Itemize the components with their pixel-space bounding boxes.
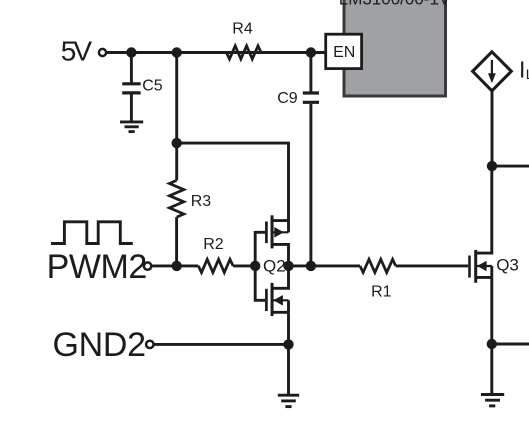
wire: PWM2 to R2 (152, 264, 198, 267)
svg-text:R3: R3 (191, 193, 212, 210)
wire: 5V rail down to R3 (175, 53, 178, 181)
gate lead (255, 232, 265, 266)
terminal PWM2 (144, 262, 151, 269)
svg-text:PWM2: PWM2 (47, 248, 147, 286)
transistor Q3 (NMOS) (470, 166, 492, 283)
svg-text:LM3100/00-1V: LM3100/00-1V (339, 0, 451, 8)
ground (below C5) (120, 122, 143, 132)
source stub (476, 276, 492, 279)
body stub with NMOS arrow (272, 299, 288, 301)
svg-text:R2: R2 (203, 236, 224, 253)
drain stub (476, 166, 492, 253)
resistor R4 (226, 46, 261, 59)
channel bar (271, 283, 274, 316)
IC U1 (gray body, partially shown at top) (344, 0, 446, 96)
node: R3 top / PMOS source branch (172, 138, 182, 148)
svg-text:Q2: Q2 (263, 256, 286, 275)
svg-text:Q3: Q3 (496, 256, 519, 275)
wire: Q2 output to R1 (289, 264, 361, 267)
ground (below Q3) (481, 395, 504, 406)
wire: Q2 source down to ground (287, 312, 290, 394)
gate lead (255, 266, 265, 300)
wire: C9 top lead (309, 53, 312, 92)
svg-text:GND2: GND2 (53, 326, 146, 364)
node: Q2 output (283, 261, 293, 271)
svg-text:5V: 5V (61, 36, 93, 67)
svg-text:R1: R1 (371, 283, 392, 300)
wire: R1 to Q3 gate (396, 264, 469, 267)
channel bar (271, 215, 274, 248)
wire: 5V rail (107, 51, 325, 54)
node: Q3 source sense (487, 339, 497, 349)
resistor R3 (vertical) (169, 180, 183, 217)
gate bar (468, 256, 471, 278)
wire: C9 bottom lead down to Q2 output (309, 104, 312, 266)
label PWM2 square-wave icon (51, 222, 133, 244)
source stub (bottom) (272, 311, 288, 314)
channel bar (474, 250, 477, 283)
wire: GND2 to Q2 source (154, 343, 288, 346)
resistor R2 (198, 259, 233, 272)
label IL (519, 57, 529, 83)
ground (below Q2) (278, 395, 299, 406)
node: GND2 tie (283, 339, 293, 349)
node: PWM2/R3 junction (172, 261, 182, 271)
svg-text:C9: C9 (277, 90, 298, 107)
wire: C5 top lead (130, 53, 133, 83)
svg-text:R4: R4 (232, 21, 253, 38)
drain stub (bottom) (272, 244, 288, 266)
wire: R2 to Q2 gates (233, 264, 255, 267)
transistor Q2 lower NMOS (255, 266, 288, 316)
svg-text:EN: EN (333, 44, 355, 61)
svg-text:C5: C5 (142, 77, 163, 94)
pin EN (box) (326, 34, 362, 68)
wire: R3 bottom to PWM2 node (175, 217, 178, 266)
capacitor C5 (122, 84, 141, 93)
body-source tie (490, 266, 493, 277)
body stub with NMOS arrow (476, 265, 492, 267)
resistor R1 (360, 259, 396, 272)
transistor Q2 upper PMOS (255, 215, 288, 266)
gate bar (265, 222, 268, 244)
source stub (top) (272, 219, 288, 222)
wire: sense branch to right edge (492, 343, 529, 346)
node: 5V/C5 junction (126, 47, 136, 57)
node: 5V/R3 junction (172, 47, 182, 57)
source-body tie (287, 220, 290, 233)
node: Q2 gate junction (250, 261, 260, 271)
terminal 5V (99, 49, 106, 56)
node: Q2 output / C9 (306, 261, 316, 271)
wire: C5 bottom lead (130, 94, 133, 121)
capacitor C9 (303, 93, 319, 102)
svg-text:I: I (519, 57, 525, 83)
body stub with PMOS arrow (272, 231, 288, 233)
current source IL (diamond) (473, 52, 512, 91)
drain stub (top) (272, 266, 288, 288)
wire: branch to Q2 PMOS source (177, 143, 289, 221)
IC part number label (clipped at top edge) (339, 0, 451, 8)
wire: current source to Q3 drain (491, 91, 494, 166)
wire: load branch to right edge (492, 165, 529, 168)
gate bar (265, 289, 268, 311)
terminal GND2 (146, 341, 153, 348)
node: load branch (487, 161, 497, 171)
wire: Q3 source down to ground (490, 277, 493, 394)
node: EN/C9 junction (306, 47, 316, 57)
body-source tie (287, 300, 290, 312)
